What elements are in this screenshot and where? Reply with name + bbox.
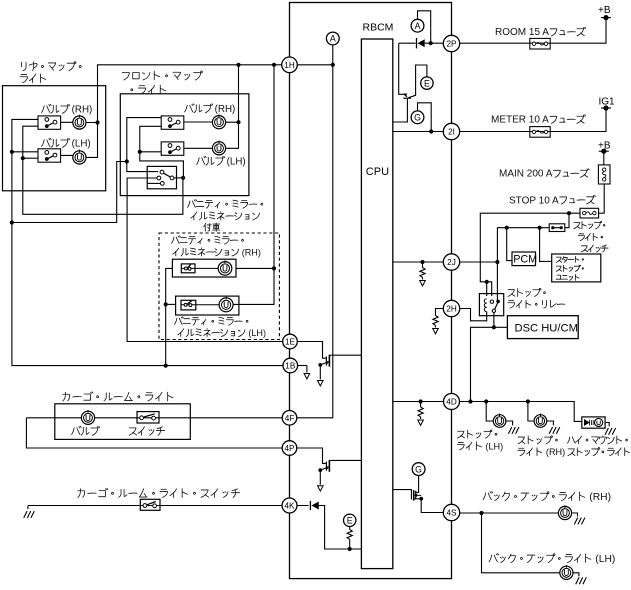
node: front map bulbs junction on 1H wire bbox=[236, 63, 240, 67]
wire: vanity RH bulb to feed bbox=[236, 267, 274, 269]
ground: stop light LH bbox=[506, 421, 513, 425]
label: stop light relay bbox=[508, 288, 545, 296]
svg-text:METER 10 A: METER 10 A bbox=[491, 115, 549, 126]
svg-text:(RH): (RH) bbox=[239, 247, 261, 257]
MOSFET Q3 (mirrored) bbox=[415, 491, 417, 500]
node: 2J tie bbox=[495, 260, 499, 264]
label: high mount stop light bbox=[568, 436, 628, 444]
bulb: back-up light LH bbox=[560, 565, 573, 579]
MOSFET Q2 bbox=[325, 462, 327, 471]
MOSFET Q1 drain to CPU bbox=[329, 354, 361, 356]
wire: 2J from CPU bbox=[393, 261, 444, 263]
PCM box bbox=[512, 252, 536, 266]
wire: 2P diode feed and E-merge branch bbox=[399, 43, 416, 97]
switch: rear map RH bbox=[38, 116, 61, 129]
wire: connector A (right) loop to 2P wire bbox=[418, 11, 431, 43]
wire: 4D from CPU bbox=[393, 401, 444, 403]
wire: front LH switch to bulb, up to RH wire bbox=[184, 122, 239, 148]
label: ROOM 15A fuse bbox=[495, 27, 586, 38]
svg-text:CPU: CPU bbox=[366, 166, 389, 178]
wire: vanity feed vertical from 1H wire bbox=[233, 65, 274, 305]
front map light box bbox=[120, 94, 249, 196]
ground: cargo switch bbox=[27, 506, 29, 510]
node: G/2I junction bbox=[429, 129, 433, 133]
wire: relay coil bottom to 2H bbox=[459, 309, 486, 321]
svg-text:4S: 4S bbox=[446, 508, 457, 517]
label: start stop unit bbox=[556, 256, 583, 262]
label: stop light LH bbox=[458, 430, 497, 438]
svg-text:A: A bbox=[415, 21, 421, 31]
bulb: vanity LH bbox=[219, 297, 233, 312]
terminal: +B (room) bbox=[601, 17, 611, 19]
bulb: stop light LH bbox=[493, 414, 506, 428]
node: A/1H junction bbox=[331, 63, 335, 67]
svg-text:4D: 4D bbox=[446, 397, 457, 406]
fuse: ROOM 15A bbox=[530, 38, 550, 49]
ground: backup RH bbox=[572, 513, 578, 517]
svg-text:1E: 1E bbox=[285, 337, 296, 346]
node: DSC junction bbox=[492, 325, 496, 329]
label: rear bulb LH bbox=[42, 138, 91, 149]
switch: stop light switch bbox=[549, 224, 565, 232]
connector 1E bbox=[283, 334, 298, 349]
fuse: STOP 10A bbox=[580, 208, 599, 218]
connector E (top) bbox=[421, 77, 433, 89]
DSC HU/CM box bbox=[507, 316, 578, 339]
diode D2 at 4K bbox=[297, 506, 362, 550]
switch: vanity LH bbox=[181, 300, 196, 310]
wire: start-stop unit feed bbox=[540, 228, 552, 262]
svg-text:G: G bbox=[415, 464, 422, 474]
svg-text:2P: 2P bbox=[446, 39, 457, 48]
label: rear bulb RH bbox=[42, 104, 93, 115]
node: rear map bulbs junction bbox=[95, 120, 99, 124]
connector G (bottom) bbox=[412, 463, 425, 476]
bulb: cargo room bbox=[81, 410, 94, 424]
node: start-stop unit branch bbox=[538, 226, 542, 230]
fuse: METER 10A bbox=[530, 127, 550, 138]
svg-text:+B: +B bbox=[598, 5, 611, 16]
node: vanity LH switch tap bbox=[164, 302, 168, 306]
node: front bottom contacts tie bbox=[138, 150, 142, 154]
wire: 2J to relay net bbox=[460, 261, 498, 263]
svg-text:4K: 4K bbox=[284, 501, 295, 510]
label: cargo room light bbox=[63, 392, 173, 401]
CPU box bbox=[361, 39, 392, 569]
junction bar: merge to CPU bbox=[403, 97, 411, 99]
node: stop LH drop bbox=[484, 399, 488, 403]
svg-text:2J: 2J bbox=[447, 258, 456, 267]
wire: front top-contacts net from 1B corner bbox=[12, 118, 162, 223]
svg-text:DSC HU/CM: DSC HU/CM bbox=[515, 322, 578, 334]
label: front map light bbox=[122, 71, 202, 80]
wire: rear bottom contacts to 3-pos switch common bbox=[23, 126, 183, 214]
connector A (right) bbox=[411, 19, 424, 32]
resistor: E pull line bbox=[349, 527, 351, 530]
wire: front bottom contacts to 3-pos common bbox=[140, 126, 184, 178]
ground: backup LH bbox=[573, 573, 579, 577]
node: vanity RH bulb tap bbox=[272, 266, 276, 270]
wire: +B to MAIN fuse bbox=[603, 151, 605, 165]
connector 1B bbox=[283, 358, 298, 373]
wire: 1B stub bbox=[297, 365, 307, 367]
MOSFET Q1 gate lead from 1E bbox=[297, 342, 326, 359]
connector 4P bbox=[282, 441, 297, 456]
svg-text:E: E bbox=[347, 515, 353, 525]
wire: rear LH bottom contact stub bbox=[23, 157, 38, 159]
arrow: 2J branch to other circuit bbox=[422, 262, 424, 268]
diode D1 at 2P bbox=[425, 42, 444, 44]
wire: MAIN fuse to STOP fuse bbox=[599, 184, 605, 213]
connector 2H bbox=[443, 300, 459, 316]
svg-text:RBCM: RBCM bbox=[363, 22, 394, 34]
arrow: Q1 source to other circuit bbox=[319, 365, 321, 380]
connector 1H bbox=[282, 57, 298, 73]
node: Q2 source bbox=[318, 468, 322, 472]
fuse: MAIN 200A (fusible link, vertical) bbox=[598, 165, 610, 184]
svg-text:4P: 4P bbox=[284, 444, 295, 453]
bulb: rear map RH bbox=[73, 115, 86, 129]
bulb: vanity RH bbox=[218, 260, 232, 275]
MOSFET Q2 drain to CPU bbox=[329, 459, 361, 461]
label: front bulb LH bbox=[197, 156, 246, 167]
wire: backup LH branch bbox=[482, 513, 560, 573]
label: cargo switch bbox=[129, 427, 164, 435]
wire: stop light LH drop bbox=[486, 402, 493, 422]
node: stop RH drop bbox=[526, 399, 530, 403]
svg-text:(LH): (LH) bbox=[69, 139, 91, 150]
wire: rear LH top contact stub bbox=[12, 151, 38, 153]
switch: front map RH bbox=[161, 116, 184, 129]
svg-text:PCM: PCM bbox=[513, 254, 537, 266]
bulb: rear map LH bbox=[73, 150, 86, 164]
wire: connector A drop to 1H and 4F bbox=[297, 45, 333, 418]
svg-text:A: A bbox=[330, 34, 336, 44]
label: front bulb RH bbox=[185, 104, 236, 115]
relay coil bbox=[484, 299, 486, 312]
wire: 4D to stop lights bbox=[459, 402, 582, 422]
unit box: vanity RH bbox=[172, 259, 236, 277]
switch: rear map LH bbox=[38, 149, 61, 162]
wire: stop light RH drop bbox=[528, 402, 534, 422]
wire: 3-pos arm to output junction bbox=[174, 177, 183, 179]
svg-text:(RH): (RH) bbox=[69, 105, 92, 116]
label: cargo bulb bbox=[72, 426, 100, 435]
node: 1B net corner junction bbox=[10, 220, 14, 224]
switch: vanity RH bbox=[181, 264, 195, 273]
ground: stop light RH bbox=[547, 421, 554, 425]
node: Q3 source bbox=[419, 497, 423, 501]
bulb: back-up light RH bbox=[558, 505, 571, 519]
label: back-up light RH bbox=[483, 492, 611, 503]
svg-text:4F: 4F bbox=[285, 414, 295, 423]
arrow: 4D branch to other circuit bbox=[420, 402, 422, 408]
wire: front RH switch to bulb to 1H drop bbox=[184, 65, 239, 122]
node: stop fuse branch bbox=[567, 211, 571, 215]
wire: connector E (top) branch bbox=[409, 65, 427, 98]
wire: relay coil top lead bbox=[486, 282, 488, 296]
cargo room light box bbox=[55, 404, 191, 440]
switch: cargo room inline bbox=[137, 412, 159, 423]
svg-text:(LH): (LH) bbox=[224, 157, 246, 168]
wire: vanity switch side vertical to 1B net bbox=[166, 268, 173, 365]
node: 3-pos switch output junction bbox=[181, 176, 185, 180]
arrow: Q2 source to other circuit bbox=[319, 470, 321, 485]
MOSFET Q3 drain from CPU bbox=[393, 490, 412, 500]
wire: vanity LH switch stub bbox=[166, 303, 176, 305]
connector 2P bbox=[443, 35, 459, 51]
svg-text:G: G bbox=[414, 112, 421, 122]
label: rear map light bbox=[21, 62, 81, 71]
arrow: 1B branch to other circuit bbox=[306, 366, 308, 373]
wire: 2I from CPU bbox=[393, 131, 444, 133]
wire: STOP fuse to relay coil net bbox=[480, 213, 580, 296]
dashed option box bbox=[159, 233, 279, 340]
node: vanity-to-1B junction bbox=[164, 364, 168, 368]
label: vanity mirror illumination equipped bbox=[188, 200, 263, 209]
label: STOP 10A fuse bbox=[509, 195, 595, 206]
wire: relay common to DSC junction bbox=[493, 313, 495, 328]
wire: connector G (top) to 2I wire bbox=[418, 103, 432, 132]
wire: rear LH switch to bulb, bulb up to junction bbox=[61, 123, 98, 158]
svg-text:ROOM 15 A: ROOM 15 A bbox=[495, 27, 549, 38]
wire: stop switch to 2J net bbox=[497, 228, 549, 301]
node: A loop junction bbox=[429, 41, 433, 45]
wire: rear RH switch to bulb to junction bbox=[61, 121, 98, 123]
connector 2J bbox=[443, 254, 459, 270]
terminal: IG1 bbox=[601, 107, 611, 109]
connector A (left) bbox=[326, 32, 339, 45]
node: rear top contacts tie bbox=[10, 150, 14, 154]
MOSFET Q1 bbox=[325, 357, 327, 366]
connector 4S bbox=[443, 504, 459, 520]
wire: DSC junction to 4D wire bbox=[471, 327, 494, 401]
MOSFET Q3 gate lead from G bbox=[416, 476, 418, 493]
bulb: front map LH bbox=[212, 141, 225, 155]
relay: stop light relay box bbox=[479, 294, 503, 316]
label: cargo room light switch bbox=[78, 488, 240, 497]
wire: 1H net top horizontal with rear-lamp drop bbox=[98, 65, 333, 123]
node: 2J branch bbox=[420, 260, 424, 264]
wire: cargo 4F line bbox=[26, 417, 283, 419]
unit box: vanity LH bbox=[176, 296, 239, 315]
node: rear bottom contacts tie bbox=[21, 156, 25, 160]
wire: 3-pos lower contact internal stub bbox=[147, 182, 160, 184]
connector E (bottom) bbox=[344, 514, 356, 526]
arrow: 2H branch to other circuit bbox=[433, 316, 438, 326]
wire: rear top contacts / ground-side vertical to 1B bbox=[12, 119, 284, 365]
wire: 4K line bbox=[28, 505, 284, 507]
node: front bulbs tie bbox=[236, 120, 240, 124]
node: relay coil/contact tie bbox=[485, 280, 489, 284]
wire: 2P to ROOM fuse to +B bbox=[460, 19, 607, 43]
svg-text:1H: 1H bbox=[284, 61, 295, 70]
node: Q1 source bbox=[318, 363, 322, 367]
ground: high mount bbox=[605, 423, 609, 427]
node: front top-contact tie bbox=[125, 159, 129, 163]
MOSFET Q2 gate lead from 4P bbox=[297, 448, 326, 463]
svg-text:(LH): (LH) bbox=[246, 328, 266, 338]
svg-text:(LH): (LH) bbox=[592, 554, 615, 565]
connector 4K bbox=[282, 498, 297, 513]
node: vanity feed junction on 1H wire bbox=[272, 63, 276, 67]
wire: Q3 source to 4S bbox=[421, 499, 443, 513]
switch: front map LH bbox=[161, 142, 184, 155]
svg-text:STOP 10 A: STOP 10 A bbox=[509, 195, 559, 206]
label: vanity mirror illumination LH bbox=[175, 317, 248, 325]
svg-text:(RH): (RH) bbox=[543, 447, 565, 457]
wire: cargo wrap to 4P bbox=[26, 418, 283, 448]
wire: PCM feed bbox=[507, 228, 512, 261]
label: stop light RH bbox=[518, 436, 557, 444]
label: METER 10A fuse bbox=[491, 115, 586, 126]
connector 4F bbox=[282, 411, 297, 426]
label: MAIN 200A fuse bbox=[499, 169, 589, 180]
wire: 2H jog to relay coil bbox=[436, 309, 444, 316]
connector 2I bbox=[443, 123, 459, 139]
node: PCM branch bbox=[505, 226, 509, 230]
RBCM module box bbox=[290, 3, 452, 579]
wire: 1E net from 3-pos middle contact bbox=[127, 178, 283, 342]
node: 4D branch bbox=[419, 399, 423, 403]
start-stop unit box bbox=[552, 254, 601, 282]
svg-text:(RH): (RH) bbox=[212, 104, 235, 115]
bulb: front map RH bbox=[212, 114, 225, 128]
bulb: stop light RH bbox=[534, 414, 547, 428]
terminal: +B (main) bbox=[599, 150, 609, 152]
wire: 2I to METER fuse to IG1 bbox=[460, 109, 607, 131]
connector 4D bbox=[444, 394, 460, 410]
svg-text:IG1: IG1 bbox=[599, 97, 616, 108]
svg-text:MAIN 200 A: MAIN 200 A bbox=[499, 169, 553, 180]
switch: front map 3-position bbox=[147, 166, 176, 188]
node: E-resistor junction on 4K wire bbox=[348, 547, 352, 551]
svg-text:E: E bbox=[424, 78, 430, 88]
svg-text:(LH): (LH) bbox=[483, 441, 503, 451]
wire: DSC junction to DSC box bbox=[494, 326, 508, 328]
label: vanity mirror illumination RH bbox=[172, 236, 244, 244]
high mount stop light (LED) bbox=[582, 417, 605, 428]
svg-text:2I: 2I bbox=[448, 127, 455, 136]
wire: 4S to backup RH bbox=[460, 512, 559, 514]
svg-text:2H: 2H bbox=[446, 304, 457, 313]
switch: cargo room light switch bbox=[140, 499, 160, 510]
node: DSC drop on 4D wire bbox=[468, 399, 472, 403]
svg-text:(RH): (RH) bbox=[586, 492, 611, 503]
label: back-up light LH bbox=[489, 554, 615, 565]
svg-text:1B: 1B bbox=[285, 361, 296, 370]
connector G (top) bbox=[411, 111, 424, 124]
node: backup LH branch bbox=[479, 511, 483, 515]
rear map light box bbox=[3, 86, 106, 191]
relay contacts bbox=[490, 300, 493, 303]
wire: branch down to stop light switch bbox=[565, 213, 569, 228]
label: stop light switch bbox=[574, 221, 605, 228]
